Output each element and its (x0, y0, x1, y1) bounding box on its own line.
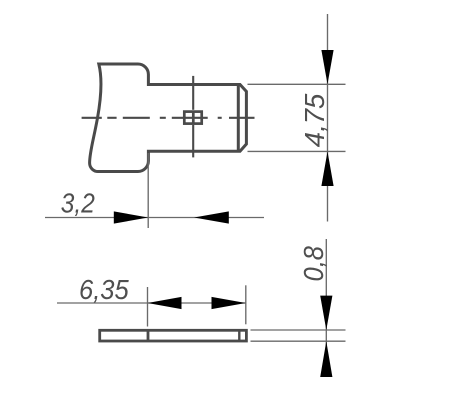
dimension 4,75 arrow down (321, 50, 333, 84)
terminal body outline (top view) (90, 64, 247, 172)
vertical centerline through dimple (192, 76, 194, 157)
dimension 4,75 line (327, 14, 329, 222)
tab bend/chamfer edge line (237, 85, 240, 152)
dimension 3,2 extension line (147, 153, 149, 228)
dimension 3,2 arrow right (114, 211, 148, 223)
dimple detent rectangle (184, 112, 201, 124)
dimension 6,35 arrow right (212, 297, 246, 309)
svg-text:3,2: 3,2 (61, 188, 95, 219)
dimension 4,75 extension line bottom (248, 150, 346, 152)
dimple divider (192, 112, 195, 124)
bar divider near tip (238, 330, 240, 341)
bar divider at body/tab boundary (147, 330, 150, 341)
dimension 6,35 line (57, 302, 246, 304)
dimension 4,75 arrow up (321, 151, 333, 186)
dimension 6,35 extension line left (147, 287, 149, 327)
dimension 0,8 arrow down (320, 296, 332, 330)
svg-text:6,35: 6,35 (79, 274, 129, 305)
dimension 0,8 arrow up (320, 341, 332, 377)
dimension 6,35 extension line right (245, 285, 247, 324)
horizontal centerline (82, 117, 255, 119)
dimension 0,8 extension line top (251, 329, 346, 331)
flat bar (side view) outline (100, 330, 247, 341)
dimension 0,8 line (325, 239, 327, 377)
svg-text:4,75: 4,75 (299, 93, 330, 147)
svg-text:0,8: 0,8 (298, 246, 329, 282)
dimension 3,2 line (45, 217, 264, 219)
dimension 6,35 arrow left (148, 297, 182, 309)
dimension 3,2 arrow left (194, 211, 229, 223)
dimension 4,75 extension line top (248, 83, 346, 85)
dimension 0,8 extension line bottom (251, 340, 346, 342)
